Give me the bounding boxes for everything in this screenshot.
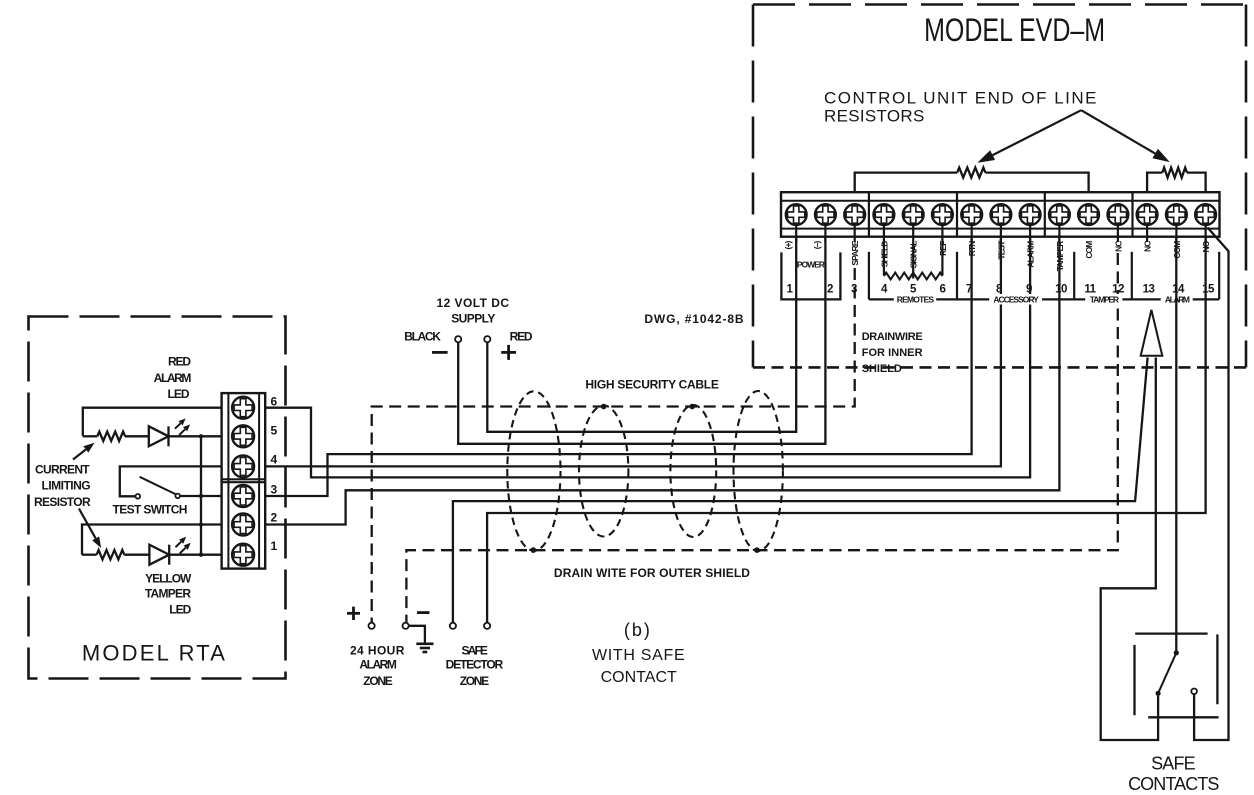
switch S1 TEST SWITCH — [136, 477, 181, 499]
screw terminal TB1-5 — [232, 425, 254, 447]
pin number 8 (TB2) — [996, 284, 1003, 296]
pin label SPARE terminal 3 — [850, 240, 860, 265]
pin number 9 (TB2) — [1026, 284, 1032, 296]
pin label COM terminal 14 — [1172, 241, 1182, 259]
svg-text:(–): (–) — [812, 240, 822, 249]
screw terminal TB2-11 — [1078, 204, 1099, 225]
svg-text:LED: LED — [168, 387, 190, 401]
wire stub below terminal 8 — [1000, 225, 1002, 242]
svg-text:NC: NC — [1113, 241, 1123, 252]
svg-text:MODEL RTA: MODEL RTA — [82, 641, 227, 666]
svg-text:COM: COM — [1084, 241, 1094, 259]
pin label ALARM terminal 9 — [1026, 241, 1036, 268]
wire stub below terminal 9 — [1029, 225, 1031, 242]
pin label NC terminal 13 — [1143, 241, 1153, 252]
terminal block TB1 (MODEL RTA) — [222, 393, 266, 568]
svg-text:DETECTOR: DETECTOR — [446, 658, 504, 672]
label CONTROL UNIT END OF LINE RESISTORS — [824, 89, 1098, 126]
label 24 HOUR ALARM ZONE — [350, 643, 405, 687]
wire stub below terminal 4 — [883, 225, 885, 242]
svg-text:DRAINWIRE: DRAINWIRE — [862, 331, 923, 343]
pin number 7 (TB2) — [966, 284, 972, 296]
svg-text:REF: REF — [938, 241, 948, 256]
label YELLOW TAMPER LED — [145, 571, 192, 616]
terminal node 24 hour alarm zone minus — [403, 623, 409, 629]
pin label NO terminal 15 — [1201, 240, 1211, 252]
wire EVD-14 COM to safe contact common — [1175, 237, 1177, 651]
wire stub below terminal 7 — [971, 225, 973, 242]
label BLACK — [404, 330, 441, 344]
label MODEL EVD-M — [924, 13, 1105, 49]
wire LED D2 cathode to screw 1 — [169, 554, 221, 556]
screw terminal TB2-15 — [1195, 204, 1216, 225]
wire stub below terminal 10 — [1058, 225, 1060, 242]
label DRAIN WITE FOR OUTER SHIELD — [554, 566, 750, 580]
wire RTA-6 to EVD-9 ALARM — [265, 237, 1030, 478]
terminal node black (-) supply — [455, 336, 461, 342]
label DRAINWIRE FOR INNER SHIELD — [862, 331, 923, 375]
arrow callout to resistor R2 — [79, 509, 101, 549]
wire screw2 to resistor R2 (lower loop) — [82, 525, 222, 555]
pin number 5 (TB1) — [271, 423, 278, 437]
svg-text:SAFE: SAFE — [1151, 753, 1196, 773]
terminal node red (+) supply — [484, 336, 490, 342]
svg-text:6: 6 — [940, 284, 946, 296]
pin number 11 (TB2) — [1084, 284, 1096, 296]
svg-text:WITH SAFE: WITH SAFE — [592, 647, 685, 664]
screw terminal TB1-4 — [232, 455, 254, 477]
ground symbol — [409, 626, 434, 652]
pin number 4 (TB2) — [881, 284, 888, 296]
wire drainwire inner shield (dashed) EVD-3 SPARE to 24hr plus — [372, 268, 855, 623]
svg-text:TAMPER: TAMPER — [1090, 294, 1119, 304]
arrow big (safe contact NC to terminal 13) — [1141, 310, 1163, 356]
label 12 VOLT DC SUPPLY — [437, 296, 510, 325]
svg-text:FOR INNER: FOR INNER — [862, 347, 923, 359]
svg-text:CONTACTS: CONTACTS — [1128, 774, 1219, 794]
pin label (–) terminal 2 — [812, 240, 822, 249]
wire stub below terminal 2 — [824, 225, 826, 242]
wire stub terminal 5 down — [912, 242, 914, 279]
svg-text:15: 15 — [1202, 284, 1215, 296]
svg-text:3: 3 — [851, 284, 857, 296]
pin label NC terminal 12 — [1113, 241, 1123, 252]
svg-text:TAMPER: TAMPER — [1055, 241, 1065, 272]
pin number 3 (TB2) — [851, 284, 857, 296]
svg-text:TAMPER: TAMPER — [145, 587, 192, 601]
screw terminal TB1-3 — [232, 485, 254, 507]
svg-text:ALARM: ALARM — [359, 658, 396, 672]
LED D1 red alarm LED — [149, 418, 190, 446]
pin number 12 (TB2) — [1112, 284, 1124, 296]
label CURRENT LIMITING RESISTOR — [34, 462, 91, 509]
node inner shield / loop2 — [601, 404, 607, 410]
cable loop (high security cable) — [670, 405, 716, 537]
junction node LED D1 / bus — [199, 434, 203, 438]
cable loop (high security cable) — [579, 406, 628, 537]
svg-text:7: 7 — [966, 284, 972, 296]
junction node LED D2 / bus — [199, 553, 203, 557]
label POWER — [797, 260, 825, 270]
terminal node safe detector zone right — [484, 623, 490, 629]
svg-text:12 VOLT DC: 12 VOLT DC — [437, 296, 510, 310]
screw terminal TB1-2 — [232, 514, 254, 536]
label RED — [510, 330, 533, 344]
svg-text:YELLOW: YELLOW — [145, 571, 192, 585]
screw terminal TB2-12 — [1108, 204, 1129, 225]
svg-text:1: 1 — [271, 539, 278, 553]
wire stub terminal 4 down — [883, 242, 885, 276]
screw terminal TB2-3 — [844, 204, 865, 225]
svg-text:(+): (+) — [783, 240, 793, 249]
svg-text:ACCESSORY: ACCESSORY — [993, 294, 1039, 304]
label ALARM — [1161, 294, 1193, 305]
wire stub below terminal 15 — [1204, 225, 1206, 242]
wire safe detector zone right to EVD-15 NO — [487, 237, 1206, 623]
terminal strip TB2 (MODEL EVD-M) — [781, 192, 1220, 237]
label TEST SWITCH — [113, 503, 187, 517]
svg-text:ALARM: ALARM — [154, 371, 192, 385]
screw terminal TB2-6 — [932, 204, 953, 225]
screw terminal TB1-6 — [232, 397, 254, 419]
switch S2 safe contact — [1156, 650, 1197, 696]
pin number 1 (TB2) — [787, 284, 794, 296]
svg-text:CONTACT: CONTACT — [601, 669, 677, 686]
pin number 13 (TB2) — [1143, 284, 1155, 296]
label ACCESSORY — [989, 294, 1042, 305]
svg-text:RESISTOR: RESISTOR — [34, 495, 91, 509]
wire vertical bus inside RTA — [200, 436, 202, 554]
resistor R3 end of line (terminals 3-11) — [855, 168, 1089, 193]
label TAMPER — [1085, 294, 1122, 305]
pin number 5 (TB2) — [910, 284, 917, 296]
wire RTA-2 to EVD-10 TAMPER — [265, 237, 1059, 525]
svg-text:RED: RED — [168, 355, 191, 369]
svg-text:SHIELD: SHIELD — [862, 363, 902, 375]
enclosure dashed box MODEL EVD-M — [753, 5, 1246, 368]
svg-text:ZONE: ZONE — [363, 674, 392, 688]
polarity plus 24 hour zone — [347, 607, 360, 620]
svg-text:2: 2 — [827, 284, 833, 296]
svg-text:BLACK: BLACK — [404, 330, 441, 344]
svg-text:CURRENT: CURRENT — [35, 462, 90, 476]
svg-text:REMOTES: REMOTES — [897, 294, 935, 304]
pin number 3 (TB1) — [271, 483, 278, 497]
label DWG #1042-8B — [644, 312, 744, 326]
arrow callout to resistor R1 — [73, 443, 95, 460]
svg-text:SAFE: SAFE — [462, 643, 488, 657]
svg-text:5: 5 — [271, 423, 278, 437]
screw terminal TB2-9 — [1020, 204, 1041, 225]
wire drain outer shield (dashed) EVD-12 NC to 24hr minus — [406, 253, 1117, 623]
node inner shield / loop3 — [689, 404, 695, 410]
LED D2 yellow tamper LED — [149, 537, 190, 565]
junction node lower loop / bus — [199, 522, 203, 526]
screw terminal TB2-13 — [1137, 204, 1158, 225]
label RED ALARM LED — [154, 355, 192, 401]
svg-text:SHIELD: SHIELD — [879, 241, 889, 268]
wire stub below terminal 5 — [912, 225, 914, 242]
wire LED D1 cathode to screw 5 — [169, 435, 222, 437]
wire test switch to screw 3 — [180, 495, 222, 497]
pin label SIGNAL terminal 5 — [909, 241, 919, 268]
pin label SHIELD terminal 4 — [879, 241, 889, 268]
bracket POWER group — [781, 252, 840, 299]
label REMOTES — [894, 294, 936, 305]
wire safe contact NC to big arrow — [1101, 358, 1158, 741]
label SAFE CONTACTS — [1128, 753, 1219, 794]
wire RTA-4 to EVD-8 TEST — [265, 237, 1001, 467]
wire RTA-3 to EVD-7 RTN — [265, 237, 971, 496]
wire stub below terminal 3 — [854, 225, 856, 242]
screw terminal TB2-8 — [991, 204, 1012, 225]
polarity minus supply — [432, 351, 448, 354]
pin number 14 (TB2) — [1172, 284, 1185, 296]
svg-text:13: 13 — [1143, 284, 1155, 296]
svg-text:3: 3 — [271, 483, 278, 497]
wire stub below terminal 12 — [1117, 225, 1119, 242]
caption (b) WITH SAFE CONTACT — [592, 620, 685, 686]
arrow callout to EOL resistor R3 — [977, 110, 1081, 163]
wire stub below terminal 1 — [795, 225, 797, 242]
cable loop (high security cable) — [734, 391, 783, 551]
svg-text:RESISTORS: RESISTORS — [824, 107, 925, 126]
pin number 2 (TB1) — [271, 511, 278, 525]
svg-text:NO: NO — [1201, 240, 1211, 252]
svg-text:LIMITING: LIMITING — [42, 479, 91, 493]
wire stub below terminal 6 — [941, 225, 943, 242]
enclosure dashed box MODEL RTA — [29, 317, 286, 679]
wire red +12V to terminal 1 — [487, 237, 796, 432]
bracket REMOTES ACCESSORY TAMPER ALARM groups — [869, 252, 1219, 300]
wire stub terminal 6 down — [941, 242, 943, 276]
arrow callout to EOL resistor R4 — [1081, 110, 1170, 162]
wire screw6 to resistor R1 (top loop) — [83, 408, 222, 437]
svg-text:POWER: POWER — [797, 260, 825, 270]
svg-text:ALARM: ALARM — [1026, 241, 1036, 268]
pin number 6 (TB1) — [271, 395, 278, 409]
junction node switch / bus — [199, 494, 203, 498]
pin label REF terminal 6 — [938, 241, 948, 256]
label HIGH SECURITY CABLE — [585, 378, 718, 392]
pin label TEST terminal 8 — [996, 240, 1006, 260]
enclosure safe contacts box — [1135, 634, 1219, 718]
label SAFE DETECTOR ZONE — [446, 643, 504, 687]
pin number 4 (TB1) — [271, 453, 278, 467]
svg-text:LED: LED — [169, 603, 191, 617]
svg-text:DRAIN WITE FOR OUTER SHIELD: DRAIN WITE FOR OUTER SHIELD — [554, 566, 750, 580]
wire screw4 to test switch — [120, 466, 222, 496]
polarity plus supply — [501, 345, 516, 360]
svg-text:24 HOUR: 24 HOUR — [350, 643, 405, 657]
svg-text:NC: NC — [1143, 241, 1153, 252]
svg-text:TEST SWITCH: TEST SWITCH — [113, 503, 187, 517]
svg-text:(b): (b) — [624, 620, 652, 640]
screw terminal TB2-7 — [961, 204, 982, 225]
pin label TAMPER terminal 10 — [1055, 241, 1065, 272]
screw terminal TB2-2 — [815, 204, 836, 225]
svg-text:RED: RED — [510, 330, 533, 344]
resistor R5 remotes EOL (terminals 4-6) — [884, 273, 943, 280]
svg-text:SPARE: SPARE — [850, 240, 860, 265]
pin label (+) terminal 1 — [783, 240, 793, 249]
screw terminal TB2-1 — [786, 204, 807, 225]
node outer shield / loop1 — [531, 547, 537, 553]
cable loop (high security cable) — [507, 391, 560, 550]
pin number 2 (TB2) — [827, 284, 833, 296]
label MODEL RTA — [82, 641, 227, 666]
wire safe detector zone left to arrow — [453, 358, 1148, 623]
svg-text:ZONE: ZONE — [460, 674, 489, 688]
pin label RTN terminal 7 — [967, 241, 977, 257]
svg-text:RTN: RTN — [967, 241, 977, 257]
resistor R1 current limiting (red LED) — [83, 432, 149, 441]
pin number 1 (TB1) — [271, 539, 278, 553]
svg-text:6: 6 — [271, 395, 278, 409]
pin label COM terminal 11 — [1084, 241, 1094, 259]
wire stub below terminal 13 — [1146, 225, 1148, 242]
svg-text:CONTROL UNIT END OF LINE: CONTROL UNIT END OF LINE — [824, 89, 1098, 108]
pin number 6 (TB2) — [940, 284, 946, 296]
wire stub below terminal 14 — [1175, 225, 1177, 242]
screw terminal TB2-10 — [1049, 204, 1070, 225]
wire black -12V to terminal 2 — [458, 237, 825, 444]
svg-text:MODEL EVD–M: MODEL EVD–M — [924, 13, 1105, 49]
wire safe contact NO to EVD-15 — [1194, 228, 1228, 741]
svg-text:2: 2 — [271, 511, 278, 525]
polarity minus 24 hour zone — [417, 611, 430, 614]
terminal node 24 hour alarm zone plus — [369, 623, 375, 629]
resistor R4 end of line (terminals 13-15) — [1147, 168, 1206, 193]
screw terminal TB2-4 — [874, 204, 895, 225]
svg-text:TEST: TEST — [996, 240, 1006, 260]
pin number 10 (TB2) — [1055, 284, 1067, 296]
screw terminal TB2-5 — [903, 204, 924, 225]
svg-text:10: 10 — [1055, 284, 1067, 296]
svg-text:SUPPLY: SUPPLY — [451, 311, 495, 325]
screw terminal TB2-14 — [1166, 204, 1187, 225]
svg-text:SIGNAL: SIGNAL — [909, 241, 919, 268]
svg-text:HIGH SECURITY CABLE: HIGH SECURITY CABLE — [585, 378, 718, 392]
node outer shield / loop4 — [754, 547, 760, 553]
terminal node safe detector zone left — [450, 623, 456, 629]
resistor R2 current limiting (yellow LED) — [82, 550, 149, 559]
pin number 15 (TB2) — [1202, 284, 1215, 296]
svg-text:DWG, #1042-8B: DWG, #1042-8B — [644, 312, 744, 326]
screw terminal TB1-1 — [232, 544, 254, 566]
svg-text:4: 4 — [271, 453, 278, 467]
